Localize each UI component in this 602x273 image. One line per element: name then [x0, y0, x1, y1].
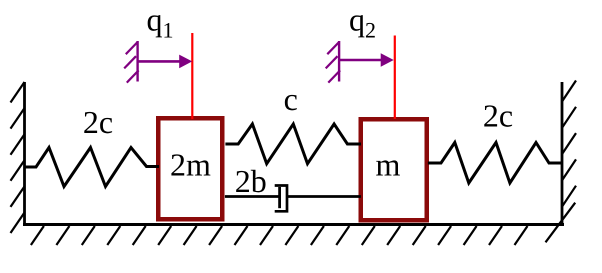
svg-text:q2: q2 — [349, 2, 376, 43]
svg-text:2c: 2c — [83, 104, 113, 140]
coordinate q1 arrowhead — [179, 55, 192, 69]
svg-text:2b: 2b — [235, 163, 267, 199]
wall left hatching — [11, 82, 25, 233]
wall right — [561, 82, 564, 226]
damper piston plate — [278, 187, 281, 208]
spring 2c left — [25, 148, 160, 187]
damper rod right — [287, 195, 361, 198]
mass 2m box — [158, 118, 222, 219]
coordinate q2 anchor post — [338, 41, 340, 82]
wall right hatching — [562, 81, 576, 207]
coordinate q2 anchor hatching — [326, 42, 340, 83]
svg-text:c: c — [284, 81, 298, 117]
spring 2c right — [428, 143, 562, 184]
floor hatching — [31, 203, 575, 245]
coordinate q2 arrowhead — [381, 53, 394, 67]
damper cylinder bracket — [275, 186, 287, 212]
coordinate q1 anchor hatching — [124, 42, 138, 83]
stem red line to mass m — [394, 36, 396, 120]
coordinate q1 arrow shaft — [138, 60, 181, 63]
damper 2b rod left — [225, 195, 279, 198]
coordinate q2 arrow shaft — [339, 59, 382, 62]
floor (ground line) — [23, 223, 564, 226]
stem red line to mass 2m — [191, 33, 193, 119]
svg-text:m: m — [376, 147, 401, 183]
coordinate q1 anchor post — [136, 41, 138, 82]
spring c middle — [225, 124, 361, 164]
svg-text:q1: q1 — [147, 2, 174, 43]
wall left — [23, 82, 26, 225]
mass m box — [361, 119, 427, 220]
svg-text:2m: 2m — [170, 147, 211, 183]
svg-text:2c: 2c — [483, 98, 513, 134]
